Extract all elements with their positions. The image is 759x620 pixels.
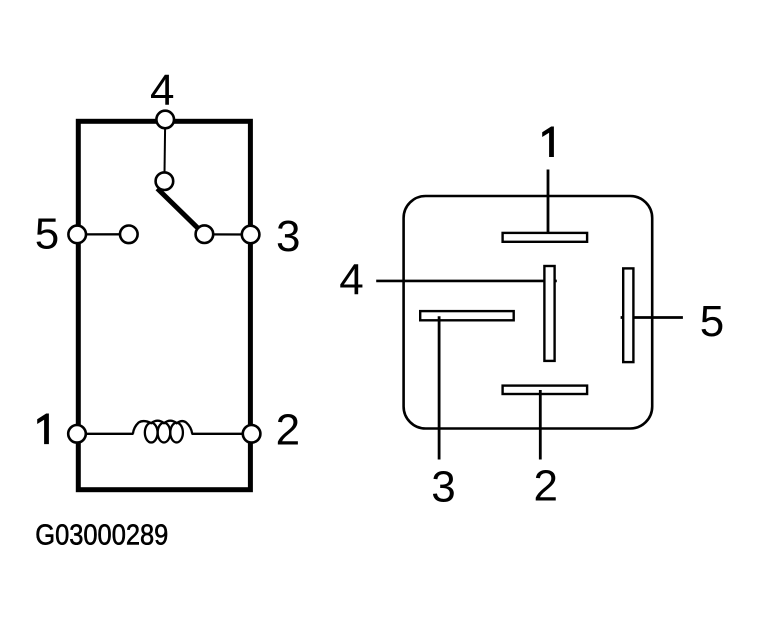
NO contact circle bbox=[196, 225, 214, 243]
svg-text:3: 3 bbox=[431, 463, 455, 512]
svg-text:3: 3 bbox=[276, 212, 300, 261]
pin 5 pad bbox=[623, 268, 633, 362]
svg-text:2: 2 bbox=[533, 461, 557, 510]
wire pin1 to coil bbox=[77, 433, 134, 435]
pin 1 pad bbox=[503, 233, 587, 242]
label pin 1 (connector, custom glyph) bbox=[542, 127, 554, 158]
pin 4 pad bbox=[544, 266, 554, 361]
wire NO contact to pin3 bbox=[204, 233, 250, 235]
pin 4 lead line bbox=[376, 280, 557, 283]
pin 3 pad bbox=[420, 311, 514, 320]
label pin 1 (schematic, custom glyph) bbox=[37, 414, 49, 445]
coil L1 top arches bbox=[133, 421, 192, 434]
NC contact circle bbox=[120, 226, 138, 244]
wire pin5 to NC contact bbox=[77, 233, 129, 235]
svg-text:4: 4 bbox=[339, 256, 363, 305]
pin 4 terminal circle bbox=[156, 111, 174, 129]
pin 5 lead line bbox=[621, 316, 683, 319]
pin 2 lead line bbox=[539, 390, 542, 460]
coil L1 loop 3 bbox=[170, 423, 183, 443]
coil L1 loop 2 bbox=[158, 423, 171, 443]
wire pin4 to switch pole bbox=[163, 120, 166, 182]
svg-text:4: 4 bbox=[150, 66, 174, 115]
relay K1 schematic body (left rectangle) bbox=[78, 121, 250, 489]
pin 5 terminal circle bbox=[68, 226, 86, 244]
pin 1 lead line bbox=[547, 170, 550, 235]
svg-text:5: 5 bbox=[700, 297, 724, 346]
coil L1 loop 1 bbox=[145, 423, 158, 443]
pin 1 terminal circle bbox=[68, 425, 86, 443]
svg-text:G03000289: G03000289 bbox=[35, 520, 168, 552]
pin 3 terminal circle bbox=[242, 226, 260, 244]
svg-text:5: 5 bbox=[35, 210, 59, 259]
relay connector outline (right rounded square) bbox=[404, 196, 653, 429]
svg-text:2: 2 bbox=[276, 406, 300, 455]
switch pole circle bbox=[156, 172, 174, 190]
pin 2 terminal circle bbox=[243, 425, 261, 443]
switch arm (movable contact, pole to pin3 contact) bbox=[157, 189, 198, 229]
wire coil to pin2 bbox=[192, 433, 252, 435]
pin 2 pad bbox=[503, 386, 587, 394]
pin 3 lead line bbox=[438, 316, 441, 459]
